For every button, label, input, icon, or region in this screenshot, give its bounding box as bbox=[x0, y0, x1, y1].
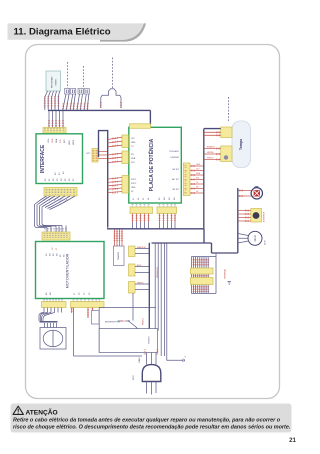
relay bus wire bbox=[148, 243, 150, 330]
dashed lid line bbox=[228, 97, 230, 121]
power board bottom pin labels bbox=[133, 197, 176, 200]
lid connector CN15 bbox=[204, 146, 232, 162]
svg-text:ATENÇÃO: ATENÇÃO bbox=[26, 408, 58, 417]
power cluster connector CN17 bbox=[191, 278, 214, 285]
svg-text:TERMINAL: TERMINAL bbox=[224, 268, 227, 279]
header title band bbox=[8, 23, 147, 41]
pressure switch P1 bbox=[101, 89, 121, 108]
vertical feeder bus bbox=[203, 129, 205, 229]
svg-text:NTC2: NTC2 bbox=[131, 183, 137, 185]
switch pair SW1 bbox=[65, 89, 76, 95]
power cluster connector CN16 bbox=[191, 268, 214, 274]
svg-text:risco de choque elétrico. O de: risco de choque elétrico. O descumprimen… bbox=[13, 425, 291, 431]
svg-text:LED1: LED1 bbox=[69, 139, 71, 145]
power board right side labels bbox=[169, 150, 180, 191]
svg-text:PRETO: PRETO bbox=[143, 318, 145, 325]
svg-text:220V: 220V bbox=[133, 375, 135, 380]
ground lug bbox=[228, 282, 232, 285]
power board left connector CN8 bbox=[108, 135, 129, 148]
lamp L1 bbox=[251, 186, 262, 199]
long line wires bbox=[155, 244, 164, 357]
svg-text:SCL: SCL bbox=[196, 178, 200, 180]
interface top connector CN1 bbox=[43, 128, 66, 134]
svg-text:21: 21 bbox=[289, 437, 296, 444]
svg-text:PRETO: PRETO bbox=[137, 283, 144, 285]
svg-text:KEY: KEY bbox=[64, 138, 66, 143]
harness bundle wires bbox=[35, 204, 67, 232]
interface bottom connector CN2 bbox=[44, 188, 77, 197]
svg-text:GND: GND bbox=[131, 142, 136, 144]
svg-text:LED2: LED2 bbox=[73, 139, 75, 145]
transformer T1 bbox=[114, 246, 125, 266]
lid connector CN14 bbox=[204, 127, 232, 138]
fan board box bbox=[36, 242, 105, 299]
svg-text:DISPLAY: DISPLAY bbox=[170, 156, 179, 159]
neutral wire with tag bbox=[167, 244, 187, 363]
mains housing box bbox=[99, 308, 156, 353]
dashed sensor line S1 bbox=[67, 62, 69, 88]
power plug P2 bbox=[142, 365, 161, 395]
svg-text:INTERFACE: INTERFACE bbox=[40, 144, 46, 173]
interface board box bbox=[36, 134, 83, 184]
svg-text:PRETO: PRETO bbox=[207, 158, 214, 160]
svg-text:TECLADO: TECLADO bbox=[169, 150, 179, 153]
relay connector RL3 bbox=[129, 282, 150, 294]
cable harness staple bbox=[99, 131, 108, 228]
interface side connector CN6 bbox=[86, 149, 98, 163]
interface pin labels bottom bbox=[45, 171, 75, 181]
svg-text:FILTRO: FILTRO bbox=[149, 336, 151, 344]
lamp wires bbox=[238, 191, 252, 197]
svg-text:VERDE: VERDE bbox=[207, 152, 214, 154]
svg-text:NTC1: NTC1 bbox=[131, 179, 137, 181]
wires bus to interface connector bbox=[49, 111, 63, 128]
mid bus right corner bbox=[152, 229, 205, 243]
power board box bbox=[129, 127, 182, 203]
relay connector RL1 bbox=[129, 246, 150, 257]
mains terminal box bbox=[99, 329, 157, 353]
plug feed wires bbox=[133, 350, 157, 381]
warning triangle icon bbox=[13, 406, 23, 414]
CN12 wires to bus bbox=[133, 214, 149, 229]
thermal fuse F1 bbox=[92, 311, 100, 325]
diagram container rounded box bbox=[26, 45, 280, 399]
SW1 leg wires bbox=[63, 94, 76, 110]
component K1 timer box bbox=[46, 71, 61, 91]
K1 leg wires bbox=[45, 91, 60, 110]
svg-text:Tampa: Tampa bbox=[239, 138, 243, 150]
mains switch S4 bbox=[118, 320, 138, 328]
compressor connector CN5 bbox=[71, 299, 105, 308]
dashed sensor line S3 bbox=[112, 58, 114, 89]
power board right connector CN11 bbox=[183, 163, 190, 196]
svg-text:MOTOVENTILADOR: MOTOVENTILADOR bbox=[66, 253, 70, 288]
switch feed wire bbox=[132, 293, 134, 321]
svg-text:INTERRUPTOR: INTERRUPTOR bbox=[105, 321, 120, 323]
svg-text:TIMER: TIMER bbox=[56, 79, 58, 86]
fan motor wires bbox=[39, 308, 62, 328]
svg-text:GND: GND bbox=[131, 187, 136, 189]
svg-text:12Vc: 12Vc bbox=[48, 138, 50, 143]
power board left connector CN9 bbox=[108, 151, 129, 164]
relay connector RL2 bbox=[129, 264, 150, 276]
dashed sensor line S2 bbox=[83, 66, 85, 88]
warning band background bbox=[11, 404, 292, 433]
CN8 pin labels bbox=[131, 138, 136, 148]
svg-text:60 Hz: 60 Hz bbox=[265, 240, 267, 245]
fan bottom connector CN4 bbox=[42, 299, 67, 308]
top bus wire bbox=[48, 109, 150, 111]
svg-text:SDA: SDA bbox=[55, 138, 58, 143]
mains bus wire bbox=[74, 355, 143, 357]
CN9 pin labels bbox=[131, 154, 136, 164]
lid panel Tampa bbox=[232, 121, 251, 168]
transformer feed wires bbox=[115, 230, 123, 247]
lamp feeder wire bbox=[204, 188, 238, 253]
power board top connector CN7 bbox=[130, 124, 151, 129]
K1 wire hatch marks bbox=[45, 97, 59, 109]
svg-text:TRANSF: TRANSF bbox=[117, 251, 120, 260]
svg-text:MARROM: MARROM bbox=[137, 246, 146, 249]
SW2 leg wires bbox=[77, 94, 89, 110]
svg-text:11. Diagrama Elétrico: 11. Diagrama Elétrico bbox=[14, 26, 111, 37]
svg-text:GND: GND bbox=[52, 138, 54, 143]
compressor feed wires bbox=[72, 308, 93, 357]
fan top connector CN3 bbox=[42, 232, 70, 240]
svg-text:INTERRUP: INTERRUP bbox=[264, 211, 266, 222]
fan board pin labels bbox=[46, 247, 91, 295]
svg-text:AZUL: AZUL bbox=[137, 264, 142, 267]
svg-text:PLACA DE POTÊNCIA: PLACA DE POTÊNCIA bbox=[147, 138, 155, 191]
switch pair SW2 bbox=[78, 89, 89, 95]
svg-text:Motor: Motor bbox=[253, 235, 257, 242]
condenser motor M2 bbox=[238, 231, 262, 245]
svg-text:NF S/T: NF S/T bbox=[172, 169, 179, 171]
power cluster frame bbox=[192, 253, 217, 294]
CN11 wire labels bbox=[196, 164, 201, 193]
CN13 wires to bus bbox=[160, 214, 176, 229]
bus drop to power board bbox=[149, 110, 151, 124]
svg-text:NF S/T: NF S/T bbox=[172, 189, 179, 191]
power board bottom connector CN13 bbox=[157, 204, 177, 214]
horizontal mid bus bbox=[107, 228, 204, 230]
svg-text:Retire o cabo elétrico da toma: Retire o cabo elétrico da tomada antes d… bbox=[13, 418, 281, 424]
interface harness wires down bbox=[35, 196, 75, 210]
svg-text:GND: GND bbox=[196, 164, 201, 166]
CN11 wires to bus bbox=[190, 166, 204, 193]
CN6 wires to cable bbox=[98, 152, 108, 159]
svg-text:PROGRAM: PROGRAM bbox=[51, 77, 54, 88]
svg-text:BRANCO: BRANCO bbox=[207, 146, 216, 149]
door switch NF bbox=[238, 209, 262, 223]
svg-text:SDA: SDA bbox=[131, 157, 136, 160]
power board bottom connector CN12 bbox=[130, 204, 153, 214]
fan motor M1 bbox=[40, 328, 66, 350]
svg-text:MC S/T: MC S/T bbox=[172, 179, 180, 181]
svg-text:CABO: CABO bbox=[138, 357, 141, 363]
power board left connector CN10 bbox=[108, 176, 129, 194]
CN10 pin labels bbox=[131, 179, 137, 193]
power cluster wires bbox=[194, 257, 209, 293]
svg-text:NTC: NTC bbox=[86, 153, 91, 155]
interface pin labels top bbox=[48, 138, 75, 145]
